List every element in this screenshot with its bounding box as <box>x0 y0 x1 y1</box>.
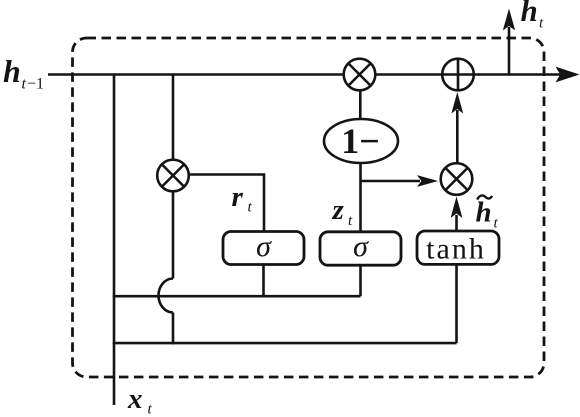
wire sigma z bottom leg <box>359 265 362 296</box>
svg-text:z: z <box>332 194 345 226</box>
svg-text:−1: −1 <box>27 76 44 93</box>
junction hop over horizontal wire <box>159 279 174 313</box>
arrowhead into adder <box>451 92 463 114</box>
svg-text:t: t <box>494 216 499 232</box>
one-minus ellipse <box>324 119 398 163</box>
tanh box <box>417 231 499 264</box>
dashed cell border <box>73 38 545 377</box>
arrowhead into candidate multiplier <box>451 197 463 219</box>
adder node <box>442 59 474 91</box>
wire lower bus 1 (to sigma gates) <box>113 295 361 298</box>
wire ellipse to sigma z <box>359 163 362 232</box>
svg-text:t: t <box>539 16 544 32</box>
wire h(t) output up <box>508 27 511 75</box>
arrowhead h(t) up output <box>503 9 515 31</box>
arrowhead z branch right <box>417 175 438 187</box>
svg-text:t: t <box>348 213 353 229</box>
svg-text:t: t <box>22 76 27 93</box>
multiplier node (update gate on h line) <box>344 59 376 91</box>
svg-text:σ: σ <box>256 230 272 263</box>
svg-text:σ: σ <box>353 230 369 263</box>
multiplier node (reset gate) <box>157 160 189 192</box>
arrowhead h line right output <box>556 67 580 83</box>
svg-text:x: x <box>127 383 143 415</box>
wire tanh bottom leg <box>455 264 458 343</box>
svg-text:r: r <box>232 181 244 213</box>
wire lower bus 2 (to tanh) <box>113 342 457 345</box>
svg-text:t: t <box>248 200 253 216</box>
svg-text:h: h <box>3 53 21 89</box>
wire z branch to candidate multiplier (arrow) <box>361 180 421 183</box>
wire sigma r bottom leg <box>262 264 265 296</box>
sigma box Z <box>320 232 401 265</box>
svg-text:1−: 1− <box>341 121 380 161</box>
wire candidate multiplier to adder (arrow) <box>456 110 459 163</box>
wire from reset multiplier down to hop <box>172 191 175 278</box>
wire tanh to candidate multiplier (arrow) <box>455 215 458 231</box>
svg-text:h: h <box>521 0 538 28</box>
sigma box R <box>223 232 304 265</box>
svg-text:t: t <box>148 402 153 417</box>
wire x(t) vertical input line <box>113 75 116 406</box>
wire update multiplier to ellipse <box>359 90 362 119</box>
svg-text:tanh: tanh <box>426 233 486 266</box>
multiplier node (candidate) <box>441 163 473 195</box>
wire h(t-1) main horizontal line <box>48 73 560 76</box>
wire from hop down to lower bus <box>172 313 175 345</box>
svg-text:h: h <box>476 197 492 229</box>
wire drop to reset multiplier <box>172 75 175 161</box>
wire reset multiplier to sigma r <box>189 175 264 232</box>
